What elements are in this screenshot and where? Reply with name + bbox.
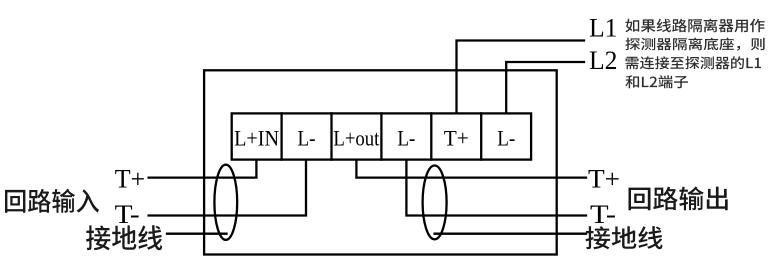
terminal separator 2: [330, 113, 332, 159]
svg-text:T-: T-: [590, 199, 616, 229]
wire L1 from terminal T+: [457, 41, 585, 114]
svg-text:L-: L-: [497, 126, 515, 151]
svg-text:T+: T+: [115, 163, 146, 193]
wire T+ output from L+out: [356, 160, 586, 178]
wire T- input to L-: [149, 160, 306, 216]
svg-text:L+out: L+out: [333, 126, 380, 151]
svg-text:L-: L-: [397, 126, 415, 151]
terminal separator 5: [480, 113, 482, 159]
label 回路输出 (loop output): [629, 187, 728, 211]
label 接地线 output (ground wire): [586, 226, 663, 249]
wire T- output from L-: [406, 160, 586, 216]
wire L2 from terminal L-: [506, 62, 584, 113]
terminal separator 4: [430, 113, 432, 159]
wire ground output: [435, 233, 586, 235]
note text line 1: 如果线路隔离器用作: [625, 19, 764, 33]
svg-text:L+IN: L+IN: [234, 126, 279, 151]
svg-text:T-: T-: [115, 199, 140, 229]
note text line 2: 探测器隔离底座，则: [625, 38, 764, 51]
terminal separator 3: [380, 113, 382, 159]
label 回路输入 (loop input): [5, 189, 99, 213]
wire T+ input to L+IN: [149, 160, 257, 178]
label 接地线 input (ground wire): [86, 225, 162, 250]
cable shield loop output: [423, 166, 447, 240]
svg-text:L2: L2: [589, 45, 618, 75]
cable shield loop input: [214, 165, 237, 240]
note text line 4: 和L2端子: [625, 75, 688, 88]
terminal separator 1: [280, 113, 282, 159]
terminal strip outline: [232, 113, 531, 159]
svg-text:T+: T+: [588, 163, 620, 193]
svg-text:L1: L1: [589, 13, 618, 43]
outer enclosure box: [204, 70, 557, 254]
svg-text:T+: T+: [444, 126, 469, 151]
wire ground input: [167, 233, 227, 235]
svg-text:L-: L-: [298, 126, 316, 151]
note text line 3: 需连接至探测器的L1: [625, 56, 761, 69]
